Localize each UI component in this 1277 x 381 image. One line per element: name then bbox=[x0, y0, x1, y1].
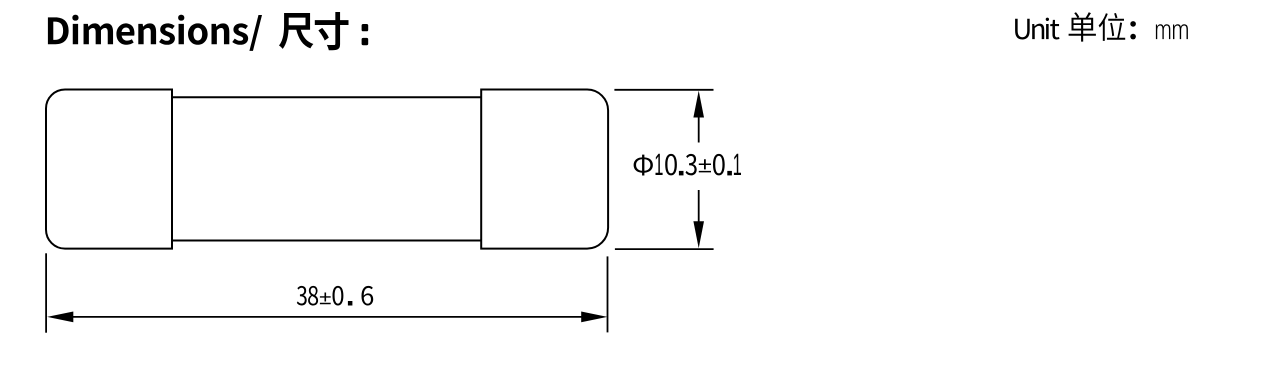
title "Dimensions/ 尺寸：" bbox=[48, 12, 368, 51]
fuse ceramic body tube bbox=[172, 97, 481, 240]
diameter dimension line with up/down arrowheads bbox=[693, 91, 704, 249]
extension line below left cap bbox=[45, 253, 47, 332]
unit note "Unit 单位： mm" bbox=[1015, 12, 1188, 41]
extension line from cap bottom bbox=[615, 248, 714, 250]
fuse left end cap bbox=[46, 90, 172, 249]
length dimension line with left/right arrowheads bbox=[47, 312, 607, 323]
length label 38±0.6 bbox=[297, 286, 373, 306]
fuse right end cap bbox=[481, 90, 608, 249]
diameter label Φ10.3±0.1 bbox=[634, 154, 741, 176]
extension line below right cap bbox=[607, 256, 609, 332]
extension line from cap top bbox=[614, 89, 713, 91]
